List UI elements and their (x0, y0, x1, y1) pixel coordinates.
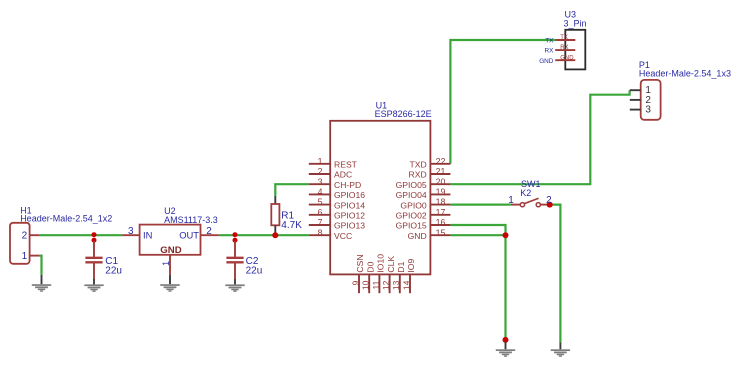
svg-text:20: 20 (436, 177, 446, 187)
svg-text:1: 1 (508, 195, 514, 206)
svg-text:1: 1 (161, 261, 171, 266)
svg-text:13: 13 (391, 280, 401, 290)
svg-text:GPIO15: GPIO15 (396, 221, 427, 231)
svg-text:GND: GND (539, 58, 554, 65)
svg-text:RX: RX (560, 45, 568, 51)
svg-text:19: 19 (436, 187, 446, 197)
svg-text:GPIO04: GPIO04 (396, 190, 427, 200)
svg-text:RXD: RXD (409, 170, 427, 180)
svg-text:2: 2 (22, 231, 28, 242)
svg-text:D1: D1 (396, 261, 406, 272)
svg-text:18: 18 (436, 197, 446, 207)
svg-text:K2: K2 (520, 188, 531, 198)
svg-text:IO9: IO9 (406, 259, 416, 273)
svg-text:1: 1 (22, 251, 28, 262)
svg-text:6: 6 (318, 207, 323, 217)
svg-text:REST: REST (334, 160, 358, 170)
svg-text:CH-PD: CH-PD (334, 180, 361, 190)
svg-text:GPIO05: GPIO05 (396, 180, 427, 190)
svg-text:RX: RX (545, 48, 555, 55)
svg-text:22u: 22u (105, 265, 122, 276)
svg-text:16: 16 (436, 218, 446, 228)
svg-text:22u: 22u (246, 265, 263, 276)
svg-text:12: 12 (381, 280, 391, 290)
svg-text:10: 10 (361, 280, 371, 290)
svg-text:GPIO02: GPIO02 (396, 211, 427, 221)
svg-text:GPIO0: GPIO0 (400, 200, 426, 210)
svg-text:CSN: CSN (355, 254, 365, 272)
svg-text:IN: IN (143, 229, 152, 240)
svg-text:AMS1117-3.3: AMS1117-3.3 (164, 215, 218, 225)
svg-text:15: 15 (436, 228, 446, 238)
svg-text:GPIO12: GPIO12 (334, 211, 365, 221)
svg-text:2: 2 (546, 195, 552, 206)
svg-text:Header-Male-2.54_1x2: Header-Male-2.54_1x2 (20, 214, 112, 224)
svg-text:11: 11 (371, 280, 381, 289)
svg-text:3: 3 (318, 177, 323, 187)
svg-text:OUT: OUT (179, 229, 199, 240)
svg-text:4: 4 (318, 187, 323, 197)
svg-text:GND: GND (160, 245, 181, 256)
svg-text:TXD: TXD (410, 160, 427, 170)
svg-text:8: 8 (318, 228, 323, 238)
svg-text:VCC: VCC (334, 231, 352, 241)
svg-text:7: 7 (318, 218, 323, 228)
svg-text:5: 5 (318, 197, 323, 207)
svg-text:GPIO14: GPIO14 (334, 200, 365, 210)
svg-text:GPIO16: GPIO16 (334, 190, 365, 200)
svg-text:Header-Male-2.54_1x3: Header-Male-2.54_1x3 (639, 69, 731, 79)
svg-text:TX: TX (560, 35, 568, 41)
svg-text:IO10: IO10 (376, 254, 386, 273)
svg-text:9: 9 (350, 280, 360, 285)
svg-text:4.7K: 4.7K (281, 220, 302, 231)
svg-text:GND: GND (560, 55, 574, 61)
svg-text:2: 2 (318, 167, 323, 177)
svg-text:1: 1 (318, 156, 323, 166)
svg-text:3: 3 (645, 105, 651, 116)
svg-text:GPIO13: GPIO13 (334, 221, 365, 231)
svg-text:17: 17 (436, 207, 446, 217)
svg-text:GND: GND (408, 231, 427, 241)
svg-text:TX: TX (545, 38, 554, 45)
svg-text:14: 14 (401, 280, 411, 290)
svg-text:2: 2 (206, 226, 212, 237)
svg-text:3: 3 (128, 226, 134, 237)
svg-text:D0: D0 (365, 261, 375, 272)
svg-text:21: 21 (436, 167, 446, 177)
svg-text:3_Pin: 3_Pin (564, 18, 587, 28)
svg-text:ADC: ADC (334, 170, 352, 180)
svg-text:CLK: CLK (386, 256, 396, 273)
svg-text:22: 22 (436, 156, 446, 166)
svg-text:ESP8266-12E: ESP8266-12E (375, 109, 432, 119)
